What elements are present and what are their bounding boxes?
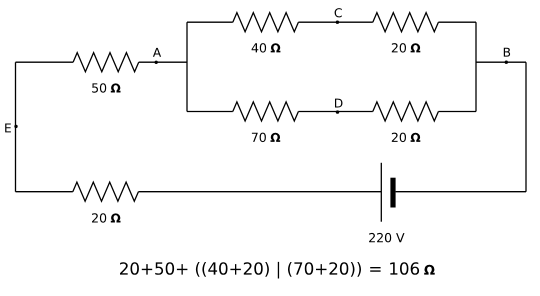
wire top branch left lead <box>187 21 233 23</box>
node D <box>336 110 339 113</box>
value label 50 ohm <box>92 83 120 93</box>
value label 40 ohm <box>252 43 281 53</box>
resistor 20 ohm bottom branch <box>373 102 439 121</box>
formula text <box>120 262 435 279</box>
wire parallel-right vertical <box>475 22 477 111</box>
resistor 50 ohm <box>73 53 139 72</box>
node label E <box>5 124 11 133</box>
wire top branch right lead <box>438 21 476 23</box>
battery voltage label 220 V <box>369 233 404 243</box>
node E <box>14 125 17 128</box>
wire bottom branch left lead <box>187 111 233 113</box>
resistor 40 ohm <box>233 13 299 32</box>
value label 70 ohm <box>252 133 280 143</box>
node A <box>155 61 158 64</box>
node B <box>505 61 508 64</box>
value label 20 ohm bottom branch <box>392 133 421 143</box>
wire bottom right <box>396 191 526 193</box>
resistor 20 ohm top <box>373 13 439 32</box>
wire D segment <box>298 111 372 113</box>
wire bottom left <box>16 191 73 193</box>
wire A segment <box>139 61 187 63</box>
wire top-left horizontal <box>16 61 74 63</box>
node label D <box>335 99 343 108</box>
wire C segment <box>298 21 372 23</box>
value label 20 ohm top <box>392 43 421 53</box>
resistor 70 ohm <box>233 102 299 121</box>
battery long plate <box>380 163 382 222</box>
wire right vertical <box>525 62 527 192</box>
wire bottom branch right lead <box>438 111 476 113</box>
node label C <box>335 8 342 17</box>
node label B <box>504 48 510 57</box>
resistor 20 ohm bottom <box>73 182 139 201</box>
wire B segment <box>476 61 526 63</box>
node label A <box>153 48 161 57</box>
wire left vertical E side <box>15 62 17 192</box>
battery short thick plate <box>390 178 395 208</box>
value label 20 ohm bottom <box>92 213 121 223</box>
wire bottom mid <box>138 191 381 193</box>
node C <box>336 21 339 24</box>
wire parallel-left vertical <box>186 22 188 111</box>
